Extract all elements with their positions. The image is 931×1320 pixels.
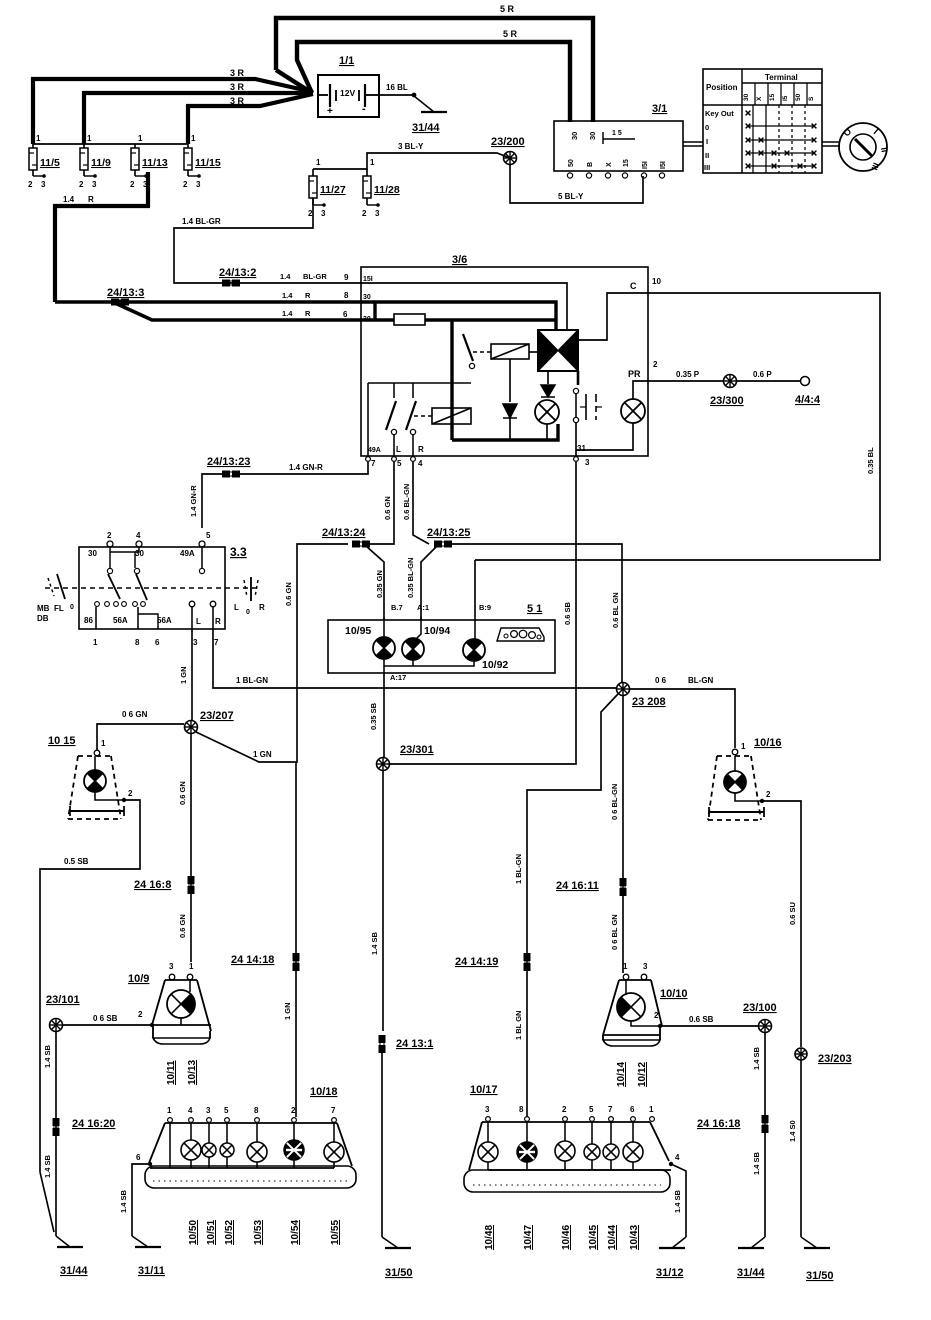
svg-text:3: 3 [196, 180, 201, 189]
ground 31/12 [672, 1237, 686, 1248]
svg-text:8: 8 [344, 291, 349, 300]
svg-text:15: 15 [769, 93, 776, 101]
svg-text:PR: PR [628, 369, 641, 379]
wire 0.6 GN 24/13:24 continues left and down [297, 544, 348, 763]
svg-text:0 6 GN: 0 6 GN [122, 710, 148, 719]
flasher C terminal wire [578, 293, 648, 340]
svg-text:16 BL: 16 BL [386, 83, 408, 92]
svg-text:0.6 GN: 0.6 GN [178, 914, 187, 938]
wire 0.35 BL flasher C/10 down right side [475, 293, 880, 560]
svg-text:B.7: B.7 [391, 603, 403, 612]
svg-text:3 BL-Y: 3 BL-Y [398, 142, 424, 151]
svg-text:1.4 GN-R: 1.4 GN-R [189, 485, 198, 517]
svg-text:1.4 SB: 1.4 SB [119, 1189, 128, 1213]
svg-text:24 16:8: 24 16:8 [134, 879, 171, 891]
svg-text:30: 30 [743, 93, 750, 101]
wire 0.6 SU 10/16 down [762, 801, 801, 1047]
wire 3 BL-Y fuses to connector 23/200 [313, 153, 510, 169]
svg-text:1 GN: 1 GN [283, 1002, 292, 1020]
svg-text:II: II [879, 147, 890, 153]
svg-text:1: 1 [191, 134, 196, 143]
fuse 11/13 [130, 134, 168, 189]
wire 0.35 SB A:17 to 23/301 [383, 673, 385, 757]
wire 0.6 P 23/300 to 4/4:4 [737, 380, 800, 382]
wire 0.35 GN to lamp 10/95 [366, 546, 384, 620]
svg-text:3: 3 [643, 962, 648, 971]
svg-text:0.35 SB: 0.35 SB [369, 702, 378, 730]
flasher terminal stubs and labels [366, 435, 590, 468]
svg-text:11/15: 11/15 [195, 157, 221, 169]
svg-text:10/54: 10/54 [290, 1220, 301, 1245]
svg-text:2: 2 [130, 180, 135, 189]
connector 24/14:19 [524, 953, 531, 971]
lamp 10/54 turn signal [293, 1123, 295, 1140]
flasher switch arm 2 left [368, 382, 471, 384]
svg-text:24 16:11: 24 16:11 [556, 880, 599, 892]
svg-text:3: 3 [375, 209, 380, 218]
svg-text:10/18: 10/18 [310, 1086, 338, 1098]
svg-text:0 6: 0 6 [655, 676, 667, 685]
svg-text:10/11: 10/11 [166, 1060, 177, 1085]
svg-text:10/92: 10/92 [482, 659, 508, 671]
lamp 10/15 terminal 2 wire [95, 792, 124, 800]
svg-text:2: 2 [79, 180, 84, 189]
svg-text:6: 6 [155, 638, 160, 647]
svg-text:DB: DB [37, 614, 49, 623]
wire 0.6 GN 23/207 to lamp 10/15 [97, 724, 184, 750]
lamp 10/16 terminal 2 wire [735, 793, 762, 801]
svg-text:BL-GR: BL-GR [303, 272, 327, 281]
svg-text:10/94: 10/94 [424, 625, 450, 637]
cluster 10/17 bus [488, 1169, 671, 1171]
svg-text:5: 5 [589, 1105, 594, 1114]
svg-text:5 R: 5 R [500, 4, 515, 14]
svg-text:5 1: 5 1 [527, 603, 542, 615]
svg-text:3: 3 [321, 209, 326, 218]
svg-text:9: 9 [344, 273, 349, 282]
svg-text:C: C [630, 281, 637, 291]
fuse 11/27 [308, 158, 346, 218]
terminal 4/4:4 [801, 377, 810, 386]
svg-text:23/200: 23/200 [491, 136, 525, 148]
svg-text:3/6: 3/6 [452, 254, 467, 266]
svg-text:24 13:1: 24 13:1 [396, 1038, 433, 1050]
wire 0.6 GN 23/207 down to 10/9 [190, 734, 192, 962]
svg-text:1: 1 [167, 1106, 172, 1115]
svg-text:11/28: 11/28 [374, 184, 400, 196]
wire 1 BL-GN switch R to 23/208 [213, 629, 617, 688]
switch 3/3 terminal 5 (49A) [199, 541, 205, 547]
front turn signal lamp 10/10 [603, 962, 688, 1046]
svg-text:0.6 SB: 0.6 SB [689, 1015, 714, 1024]
svg-text:1 GN: 1 GN [179, 666, 188, 684]
svg-text:10/52: 10/52 [224, 1220, 235, 1245]
svg-text:3 R: 3 R [230, 82, 245, 92]
lamp 10/43 [632, 1122, 634, 1142]
cluster 10/17 pins [485, 1105, 654, 1121]
svg-text:1 BL-GN: 1 BL-GN [514, 854, 523, 884]
wire 1.4 R to flasher 30 (pin 6) [115, 303, 361, 320]
lamp 10/15 base bar [70, 810, 124, 812]
fuse 11/15 [183, 134, 221, 189]
svg-text:10/47: 10/47 [523, 1225, 534, 1250]
fuse 11/28 [362, 158, 400, 218]
svg-text:R: R [305, 291, 311, 300]
svg-text:10/16: 10/16 [754, 737, 782, 749]
svg-text:A:17: A:17 [390, 673, 406, 682]
flasher internal wire 15I [361, 283, 567, 330]
cable ignition switch to table [683, 141, 703, 143]
side marker lamp 10/15 [48, 735, 121, 819]
svg-text:50: 50 [568, 159, 575, 167]
svg-text:1: 1 [138, 134, 143, 143]
svg-text:6: 6 [136, 1153, 141, 1162]
svg-text:31/12: 31/12 [656, 1267, 684, 1279]
svg-text:0.35 P: 0.35 P [676, 370, 700, 379]
svg-text:1.4: 1.4 [282, 291, 293, 300]
svg-text:56A: 56A [157, 616, 172, 625]
svg-text:24 16:20: 24 16:20 [72, 1118, 115, 1130]
lamp 10/44 [610, 1122, 612, 1144]
svg-text:FL: FL [54, 604, 64, 613]
svg-text:2: 2 [291, 1106, 296, 1115]
svg-text:31/44: 31/44 [412, 122, 440, 134]
svg-text:3/1: 3/1 [652, 103, 667, 115]
svg-text:6: 6 [343, 310, 348, 319]
svg-text:10/17: 10/17 [470, 1084, 498, 1096]
svg-text:0.6 SB: 0.6 SB [563, 601, 572, 625]
ground 31/50 right [801, 1237, 817, 1248]
svg-text:Terminal: Terminal [765, 73, 798, 82]
flasher relay coil 2 [432, 408, 471, 424]
flasher switch arm 1 [463, 334, 473, 361]
svg-text:1 BL-GN: 1 BL-GN [236, 676, 268, 685]
svg-text:11/27: 11/27 [320, 184, 346, 196]
svg-text:23/203: 23/203 [818, 1053, 852, 1065]
flasher pilot lamp [535, 400, 559, 424]
svg-text:23/100: 23/100 [743, 1002, 777, 1014]
svg-text:23/301: 23/301 [400, 744, 434, 756]
svg-text:1: 1 [87, 134, 92, 143]
wire 1.4 R fuse 11/13 to connector 24/13:3 [55, 172, 148, 302]
flasher terminal 49A wire [367, 383, 369, 456]
svg-text:0: 0 [705, 123, 709, 132]
svg-text:L: L [396, 445, 401, 454]
wire 1.4 GN-R flasher 49A to turn signal switch [240, 462, 368, 474]
svg-text:3: 3 [169, 962, 174, 971]
flasher diode 1 [503, 404, 517, 418]
svg-text:31/44: 31/44 [60, 1265, 88, 1277]
lamp 10/9 bulb [167, 990, 195, 1018]
svg-text:4/4:4: 4/4:4 [795, 394, 821, 406]
ground 31/44 right [751, 1237, 765, 1248]
svg-text:I5: I5 [782, 95, 789, 101]
ground 31/50 center [382, 1237, 398, 1248]
svg-text:2: 2 [138, 1010, 143, 1019]
wire 1.4 R to flasher 30 (pin 8) [55, 300, 361, 304]
svg-text:0.6 GN: 0.6 GN [178, 781, 187, 805]
svg-text:R: R [259, 603, 265, 612]
connector 23/300 [724, 375, 737, 388]
svg-text:1.4 SB: 1.4 SB [370, 931, 379, 955]
svg-text:O: O [841, 126, 853, 138]
switch 3/3 internals [84, 547, 221, 629]
svg-text:11/13: 11/13 [142, 157, 168, 169]
switch 3/3 pin numbers [93, 638, 219, 647]
svg-text:5: 5 [224, 1106, 229, 1115]
cable table to key [822, 141, 840, 143]
ignition switch 3/1 [554, 103, 683, 178]
wire 5 BL-Y 23/200 to ignition switch [510, 164, 643, 203]
wire 1.4 BL-GR fuse 11/27 to flasher 15I [174, 198, 361, 283]
lamp 10/16 bulb [724, 771, 746, 793]
svg-text:11/9: 11/9 [91, 157, 111, 169]
svg-text:23/101: 23/101 [46, 994, 80, 1006]
wire 3 R from fuse 11/15 [188, 94, 313, 144]
wire 3 R from fuse 11/9 [84, 93, 313, 144]
svg-text:50: 50 [795, 93, 802, 101]
svg-text:1: 1 [316, 158, 321, 167]
wire 0.6 BL-GN 24/13:25 to 23/208 [452, 544, 622, 682]
fuse bus joining fuse tops [33, 143, 188, 145]
flasher capacitor [580, 394, 602, 420]
svg-text:1.4 SB: 1.4 SB [43, 1044, 52, 1068]
svg-text:MB: MB [37, 604, 50, 613]
svg-text:0.6 P: 0.6 P [753, 370, 772, 379]
wire 3 R from fuse 11/5 [33, 79, 313, 144]
svg-text:3: 3 [41, 180, 46, 189]
flasher bottom bus [452, 424, 558, 440]
svg-text:1.4 SB: 1.4 SB [752, 1151, 761, 1175]
svg-text:0.6 BL-GN: 0.6 BL-GN [402, 484, 411, 520]
connector 24/13:1 [379, 1035, 386, 1053]
lamp 10/48 [487, 1122, 489, 1142]
cluster 10/18 bus [150, 1167, 334, 1169]
svg-text:10/14: 10/14 [616, 1062, 627, 1087]
svg-text:2: 2 [562, 1105, 567, 1114]
svg-text:3.3: 3.3 [230, 545, 247, 559]
svg-text:49A: 49A [368, 447, 381, 454]
svg-text:0 6 BL GN: 0 6 BL GN [610, 914, 619, 950]
svg-text:10/13: 10/13 [187, 1060, 198, 1085]
flasher relay coil 1 [491, 344, 529, 359]
svg-text:3 R: 3 R [230, 96, 245, 106]
wire 1 GN 23/207 to rear lamps [196, 732, 296, 1117]
svg-text:0.6 GN: 0.6 GN [284, 582, 293, 606]
svg-text:L: L [196, 617, 201, 626]
svg-text:2: 2 [766, 790, 771, 799]
svg-text:5: 5 [206, 531, 211, 540]
lamp 10/15 bulb [84, 770, 106, 792]
svg-text:1.4 BL-GR: 1.4 BL-GR [182, 217, 221, 226]
svg-text:24/13:24: 24/13:24 [322, 527, 366, 539]
svg-text:4: 4 [136, 531, 141, 540]
svg-text:30: 30 [88, 549, 97, 558]
svg-text:31/44: 31/44 [737, 1267, 765, 1279]
wire 0.6 SB lamp 10/9 to 23/101 [63, 1024, 152, 1026]
svg-text:1: 1 [101, 739, 106, 748]
wire 1 GN switch L to 23/207 [191, 629, 193, 721]
wire 0.35 BL-GN to lamp 10/94 [421, 546, 437, 620]
lamp 10/9 terminal 2 [180, 1018, 182, 1025]
svg-text:10/44: 10/44 [607, 1225, 618, 1250]
svg-text:1: 1 [189, 962, 194, 971]
svg-text:30: 30 [363, 294, 371, 301]
svg-text:2: 2 [654, 1011, 659, 1020]
svg-text:2: 2 [107, 531, 112, 540]
svg-text:+: + [327, 106, 333, 117]
lamp 10/10 terminal 2 wire [631, 1021, 660, 1026]
svg-text:31/50: 31/50 [385, 1267, 413, 1279]
svg-text:24/13:3: 24/13:3 [107, 287, 144, 299]
svg-text:10/95: 10/95 [345, 625, 371, 637]
connector 24/16:8 [188, 876, 195, 894]
svg-text:Position: Position [706, 83, 738, 92]
ignition position/terminal table [703, 69, 822, 173]
svg-text:X: X [756, 96, 763, 101]
svg-text:2: 2 [183, 180, 188, 189]
svg-text:0.6 GN: 0.6 GN [383, 496, 392, 520]
lamp 10/45 [591, 1122, 593, 1144]
svg-text:8: 8 [135, 638, 140, 647]
wire 23/208 to 10/17 (1 BL-GN) [527, 694, 618, 1117]
svg-text:5 BL-Y: 5 BL-Y [558, 192, 584, 201]
svg-text:10/53: 10/53 [253, 1220, 264, 1245]
ground 31/11 [132, 1236, 148, 1247]
svg-text:1.4: 1.4 [282, 309, 293, 318]
svg-text:23 208: 23 208 [632, 696, 666, 708]
lamp 10/51 [208, 1123, 210, 1143]
lamp 10/47 turn signal [526, 1122, 528, 1142]
lamp 10/10 bulb [617, 993, 645, 1021]
svg-text:10/51: 10/51 [206, 1220, 217, 1245]
svg-text:4: 4 [418, 459, 423, 468]
wire 0.6 BL-GN 23/208 right to 10/16 [630, 689, 735, 748]
svg-text:7: 7 [214, 638, 219, 647]
svg-text:49A: 49A [180, 549, 195, 558]
wire 1.4 SB 23/301 down [382, 771, 384, 1031]
svg-text:B: B [587, 162, 594, 167]
cluster internal bus to A:17 [384, 659, 474, 666]
svg-text:1.4 SB: 1.4 SB [752, 1046, 761, 1070]
svg-text:23/207: 23/207 [200, 710, 234, 722]
svg-text:23/300: 23/300 [710, 395, 744, 407]
lamp 10/55 [333, 1123, 335, 1142]
svg-text:10/10: 10/10 [660, 988, 688, 1000]
svg-text:1: 1 [623, 962, 628, 971]
connector 23/208 [617, 683, 630, 696]
svg-text:5: 5 [397, 459, 402, 468]
svg-text:30: 30 [588, 132, 597, 140]
wire 0.6 SB flasher 31 to 23/301 [390, 462, 576, 764]
svg-text:2: 2 [653, 360, 658, 369]
svg-text:31: 31 [577, 444, 586, 453]
switch 3/3 terminal 2 [107, 541, 113, 547]
svg-text:0: 0 [246, 609, 250, 616]
svg-text:1: 1 [93, 638, 98, 647]
cluster 10/18 terminal 6 [148, 1162, 152, 1166]
svg-text:1: 1 [649, 1105, 654, 1114]
wire 1.4 SB 23/100 down [764, 1033, 766, 1237]
svg-text:III: III [704, 163, 710, 172]
svg-text:0.35 GN: 0.35 GN [375, 570, 384, 598]
svg-text:S: S [808, 96, 815, 101]
svg-text:R: R [88, 195, 94, 204]
svg-text:1 5: 1 5 [612, 130, 622, 137]
svg-text:1.4 SB: 1.4 SB [43, 1154, 52, 1178]
connector 24/14:18 [293, 953, 300, 971]
fuse 11/5 [28, 134, 60, 189]
svg-text:L: L [234, 603, 239, 612]
svg-text:R: R [215, 617, 221, 626]
svg-text:10/50: 10/50 [188, 1220, 199, 1245]
svg-text:7: 7 [371, 459, 376, 468]
flasher diode 2 [547, 371, 549, 384]
svg-text:1/1: 1/1 [339, 55, 354, 67]
svg-text:8: 8 [519, 1105, 524, 1114]
cluster 10/18 pins [167, 1106, 336, 1122]
wire 0.6 SB 10/10 to 23/100 [660, 1025, 758, 1027]
svg-text:3: 3 [206, 1106, 211, 1115]
svg-text:2: 2 [362, 209, 367, 218]
connector 24/16:20 [53, 1118, 60, 1136]
fuse 11/9 [79, 134, 111, 189]
svg-text:86: 86 [84, 616, 93, 625]
svg-text:10/55: 10/55 [330, 1220, 341, 1245]
svg-text:0 6 SB: 0 6 SB [93, 1014, 118, 1023]
svg-text:1.4: 1.4 [280, 272, 291, 281]
svg-text:3: 3 [485, 1105, 490, 1114]
svg-text:4: 4 [675, 1153, 680, 1162]
svg-text:1: 1 [36, 134, 41, 143]
svg-text:15I: 15I [363, 276, 373, 283]
connector 24/16:11 [620, 878, 627, 896]
svg-text:-: - [362, 103, 366, 115]
svg-text:10/45: 10/45 [588, 1225, 599, 1250]
wire riser lamp 10/92 to 0.35 BL [474, 560, 476, 617]
lamp 10/52 [226, 1123, 228, 1143]
lamp 10/16 base bar [709, 811, 764, 813]
svg-text:0.5 SB: 0.5 SB [64, 857, 89, 866]
wire 5 R (battery to ignition switch 30, lower) [297, 42, 570, 122]
wire 16 BL battery negative [379, 94, 413, 96]
flasher X-box (flasher element) [538, 330, 578, 371]
svg-text:10/9: 10/9 [128, 973, 149, 985]
svg-text:7: 7 [608, 1105, 613, 1114]
svg-text:1: 1 [370, 158, 375, 167]
wire 5 R (battery to ignition switch 30, upper) [276, 18, 593, 122]
svg-text:1 GN: 1 GN [253, 750, 272, 759]
svg-text:5 R: 5 R [503, 29, 518, 39]
svg-text:10/46: 10/46 [561, 1225, 572, 1250]
switch 3/3 right lever L-0-R [234, 577, 265, 616]
connector 24/16:18 [762, 1115, 769, 1133]
flasher relay contact to terminal 31 [577, 371, 580, 385]
wire 1.4 SB 23/101 down [55, 1032, 57, 1236]
svg-text:11/5: 11/5 [40, 157, 60, 169]
rear lamp cluster 10/18 [145, 1086, 356, 1188]
svg-text:10 15: 10 15 [48, 735, 76, 747]
svg-text:2: 2 [28, 180, 33, 189]
svg-text:0.6 SU: 0.6 SU [788, 902, 797, 925]
svg-text:B:9: B:9 [479, 603, 491, 612]
svg-text:0.6 BL GN: 0.6 BL GN [611, 592, 620, 628]
svg-text:10/12: 10/12 [637, 1062, 648, 1087]
svg-text:24/13:23: 24/13:23 [207, 456, 250, 468]
svg-text:24 14:18: 24 14:18 [231, 954, 274, 966]
svg-text:I5I: I5I [642, 161, 649, 169]
wire 0.6 GN flasher L to 24/13:24 [370, 462, 394, 544]
